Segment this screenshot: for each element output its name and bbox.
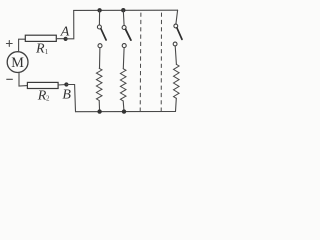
- right branch wire switch to resistor: [175, 46, 176, 64]
- switch S2: [122, 26, 131, 48]
- wire motor bottom to R2: [19, 73, 27, 86]
- resistor R2: [27, 82, 58, 88]
- dashed branch wire 1: [139, 10, 142, 112]
- branch 2 junction dot bottom: [122, 109, 126, 113]
- wire R2 to node B: [58, 84, 66, 87]
- motor M1: [7, 52, 28, 73]
- resistor R1: [25, 35, 56, 41]
- branch 2 wire switch to resistor: [122, 48, 125, 69]
- bottom bus wire: [76, 111, 176, 113]
- svg-text:A: A: [60, 25, 70, 40]
- branch 1 junction dot top: [97, 8, 101, 12]
- svg-text:1: 1: [45, 48, 49, 56]
- node A junction dot: [64, 37, 68, 41]
- wire motor top to R1: [19, 39, 26, 52]
- right branch wire resistor to bus: [175, 98, 178, 111]
- resistor R4 (branch 2 zigzag): [120, 69, 126, 101]
- label R1: [35, 42, 49, 57]
- branch 2 junction dot top: [121, 8, 125, 12]
- svg-text:R: R: [35, 42, 45, 57]
- wire node B to bottom bus riser: [66, 85, 75, 112]
- switch S3: [173, 24, 182, 46]
- branch 1 wire bus to switch: [98, 10, 100, 25]
- label R2: [37, 89, 50, 104]
- node B junction dot: [64, 82, 68, 86]
- wire R1 to node A: [56, 38, 65, 40]
- resistor R3 (branch 1 zigzag): [96, 68, 102, 100]
- branch 2 wire bus to switch: [122, 10, 125, 25]
- branch 1 wire resistor to bus: [98, 101, 100, 112]
- wire node A to top bus riser: [66, 10, 74, 38]
- branch 1 junction dot bottom: [97, 109, 101, 113]
- switch S1: [97, 25, 106, 48]
- branch 1 wire switch to resistor: [99, 48, 101, 69]
- right branch wire bus to switch: [176, 10, 178, 24]
- plus terminal label: [6, 41, 12, 47]
- top bus wire: [74, 9, 178, 11]
- svg-text:B: B: [62, 88, 71, 103]
- branch 2 wire resistor to bus: [122, 101, 125, 112]
- minus terminal label: [7, 78, 13, 80]
- svg-text:2: 2: [46, 95, 50, 103]
- resistor R5 (right branch zigzag): [174, 64, 180, 98]
- svg-text:M: M: [11, 55, 24, 71]
- dashed branch wire 2: [160, 10, 162, 112]
